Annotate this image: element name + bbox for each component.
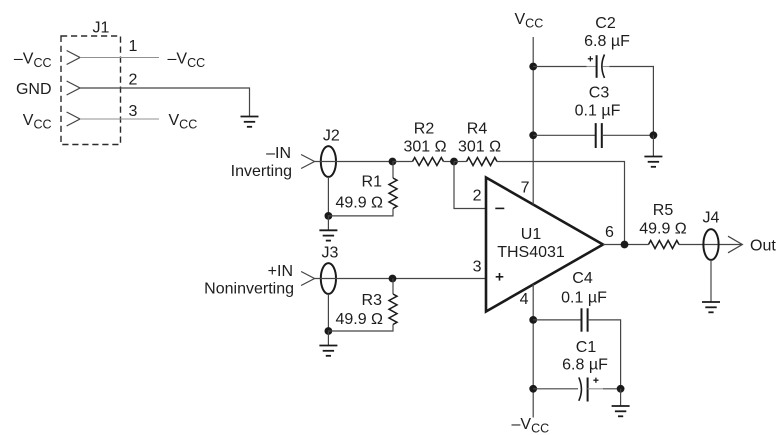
connector J3 label — [322, 245, 339, 262]
capacitor C3 plates — [596, 123, 602, 148]
label C2 — [595, 15, 616, 32]
svg-text:0.1 µF: 0.1 µF — [561, 290, 607, 307]
wire J1 pin 1 stub — [80, 57, 159, 59]
C1 gray stub right — [588, 388, 603, 390]
label R4 — [467, 121, 488, 138]
svg-text:301 Ω: 301 Ω — [403, 139, 446, 156]
C2 gray stub right — [603, 66, 610, 68]
wire J2 down stub — [327, 177, 329, 216]
ground right of C3 — [644, 157, 662, 167]
J4 out arrow — [728, 236, 742, 253]
node J3 ground branch — [325, 327, 333, 335]
wire node to op-amp pin 2 — [454, 162, 486, 209]
svg-text:R3: R3 — [362, 292, 383, 309]
svg-text:+IN: +IN — [268, 263, 293, 280]
wire J2 to node — [314, 161, 393, 163]
label Vcc top — [515, 11, 544, 31]
label R3 value — [335, 311, 383, 328]
svg-text:R1: R1 — [362, 174, 383, 191]
svg-text:C4: C4 — [572, 270, 593, 287]
resistor R5 — [649, 241, 680, 249]
svg-text:3: 3 — [129, 103, 138, 120]
svg-text:49.9 Ω: 49.9 Ω — [639, 221, 687, 238]
svg-text:49.9 Ω: 49.9 Ω — [335, 195, 383, 212]
wire to ground C3 — [652, 135, 654, 156]
pin number 7 — [521, 180, 530, 197]
wire node to R4 — [454, 161, 467, 163]
label Vcc net pin 3 — [169, 112, 198, 132]
C1 polarity plus — [593, 378, 598, 383]
pin number 3 op-amp — [473, 259, 482, 276]
svg-text:Noninverting: Noninverting — [204, 281, 294, 298]
svg-text:R2: R2 — [414, 121, 435, 138]
pin number 1 — [129, 38, 138, 55]
ground right of C1 — [612, 406, 630, 416]
wire Vcc to C2 — [533, 66, 586, 68]
label C2 value — [584, 33, 630, 50]
node J2 ground branch — [325, 212, 333, 220]
label -IN — [266, 145, 291, 162]
resistor R3 — [389, 294, 397, 325]
wire J1 pin 3 stub — [80, 118, 159, 120]
node pin4-C1 — [529, 385, 537, 393]
svg-text:301 Ω: 301 Ω — [458, 139, 501, 156]
label -Vcc left of J1 — [14, 51, 52, 71]
wire node to R3 — [392, 279, 394, 295]
label Vcc left of J1 — [23, 112, 52, 132]
svg-text:3: 3 — [473, 259, 482, 276]
label C4 value — [561, 290, 607, 307]
ground under J1 pin 2 — [241, 117, 259, 127]
label C4 — [572, 270, 593, 287]
label R5 value — [639, 221, 687, 238]
wire pin4 to C4 — [533, 319, 581, 321]
node J3-R3 — [389, 275, 397, 283]
label -Vcc bottom — [512, 416, 550, 435]
pin number 2 op-amp — [473, 188, 482, 205]
node C1 right — [617, 385, 625, 393]
label R2 — [414, 121, 435, 138]
resistor R4 — [467, 158, 498, 166]
label THS4031 — [497, 244, 565, 261]
label R5 — [653, 202, 674, 219]
svg-text:J4: J4 — [703, 210, 720, 227]
node J2-R1-R2 — [389, 158, 397, 166]
wire R1 bottom to ground node — [328, 209, 393, 231]
wire C4 to right rail — [588, 320, 621, 389]
pin number 3 — [129, 103, 138, 120]
svg-text:6.8 µF: 6.8 µF — [562, 357, 608, 374]
wire J3 to op-amp pin 3 — [314, 278, 486, 280]
wire op-amp output — [603, 244, 649, 246]
wire C1 to right node — [603, 388, 621, 390]
svg-text:Out: Out — [750, 238, 776, 255]
label R1 — [362, 174, 383, 191]
label R4 value — [458, 139, 501, 156]
J2 arrow — [301, 155, 314, 169]
svg-text:4: 4 — [520, 291, 529, 308]
svg-text:J2: J2 — [323, 128, 340, 145]
svg-text:–IN: –IN — [266, 145, 291, 162]
wire R3 bottom to ground node — [328, 325, 393, 346]
label Inverting — [231, 163, 292, 180]
connector J4 jack — [703, 229, 718, 260]
svg-text:7: 7 — [521, 180, 530, 197]
wire node to R2 — [393, 161, 413, 163]
svg-text:6.8 µF: 6.8 µF — [584, 33, 630, 50]
wire Vcc rail to pin 7 — [532, 37, 534, 205]
wire R2 to node — [444, 161, 455, 163]
node R2-R4 junction — [450, 158, 458, 166]
svg-text:6: 6 — [605, 224, 614, 241]
node Vcc-C2 — [529, 63, 537, 71]
wire node to R1 — [392, 162, 394, 179]
node pin4-C4 — [529, 316, 537, 324]
connector J3 jack — [321, 263, 336, 294]
capacitor C4 plates — [582, 308, 588, 331]
connector J1 dashed body — [61, 36, 121, 145]
connector J2 label — [323, 128, 340, 145]
svg-text:U1: U1 — [521, 226, 542, 243]
wire feedback top — [497, 162, 625, 245]
capacitor C2 plus plate — [596, 55, 598, 78]
svg-text:R5: R5 — [653, 202, 674, 219]
ground under J2 — [319, 230, 337, 240]
svg-text:49.9 Ω: 49.9 Ω — [335, 311, 383, 328]
svg-text:C2: C2 — [595, 15, 616, 32]
label U1 — [521, 226, 542, 243]
svg-text:R4: R4 — [467, 121, 488, 138]
svg-text:C1: C1 — [576, 339, 597, 356]
J1 pin 3 arrow — [67, 112, 80, 126]
svg-text:J3: J3 — [322, 245, 339, 262]
wire to ground C1 — [620, 389, 622, 406]
svg-text:2: 2 — [473, 188, 482, 205]
J1 pin 2 arrow — [67, 81, 80, 95]
connector J2 jack — [321, 146, 336, 177]
label R2 value — [403, 139, 446, 156]
J1 pin 1 arrow — [67, 51, 80, 65]
svg-text:GND: GND — [16, 81, 52, 98]
pin number 4 — [520, 291, 529, 308]
wire C2 to right rail — [609, 67, 653, 136]
op-amp U1 triangle — [486, 178, 603, 312]
wire op-amp pin 4 rail — [532, 284, 534, 418]
connector J1 label — [93, 20, 110, 37]
svg-text:0.1 µF: 0.1 µF — [575, 103, 621, 120]
pin number 6 — [605, 224, 614, 241]
label R3 — [362, 292, 383, 309]
wire J4 down stub — [710, 260, 712, 302]
capacitor C1 curved plate — [579, 377, 582, 400]
label C3 value — [575, 103, 621, 120]
label Out — [750, 238, 776, 255]
label -Vcc net pin 1 — [168, 51, 206, 71]
label R1 value — [335, 195, 383, 212]
wire R5 to J4 — [679, 244, 742, 246]
svg-text:Inverting: Inverting — [231, 163, 292, 180]
ground under J3 — [319, 346, 337, 356]
pin number 2 — [129, 72, 138, 89]
resistor R2 — [413, 158, 444, 166]
J3 arrow — [301, 272, 314, 286]
node Vcc-C3 — [529, 131, 537, 139]
label +IN — [268, 263, 293, 280]
label GND left of J1 — [16, 81, 52, 98]
wire J3 down stub — [327, 294, 329, 331]
svg-text:1: 1 — [129, 38, 138, 55]
node output — [621, 241, 629, 249]
wire Vcc to C3 — [533, 134, 596, 136]
op-amp minus sign — [495, 207, 504, 209]
capacitor C2 curved plate — [602, 55, 605, 78]
label C1 value — [562, 357, 608, 374]
resistor R1 — [389, 178, 397, 209]
label C3 — [589, 85, 610, 102]
wire J1 pin 2 to ground — [80, 88, 250, 117]
wire pin4 to C1 — [533, 388, 578, 390]
svg-text:C3: C3 — [589, 85, 610, 102]
ground under J4 — [702, 302, 720, 312]
node C3 right — [650, 131, 658, 139]
label C1 — [576, 339, 597, 356]
svg-text:2: 2 — [129, 72, 138, 89]
op-amp plus sign — [496, 273, 504, 281]
C2 polarity plus — [588, 56, 593, 61]
connector J4 label — [703, 210, 720, 227]
capacitor C1 plus plate — [587, 378, 589, 402]
wire C3 to right rail — [602, 134, 654, 136]
svg-text:J1: J1 — [93, 20, 110, 37]
svg-text:THS4031: THS4031 — [497, 244, 565, 261]
label Noninverting — [204, 281, 294, 298]
C2 gray stub left — [587, 66, 597, 68]
